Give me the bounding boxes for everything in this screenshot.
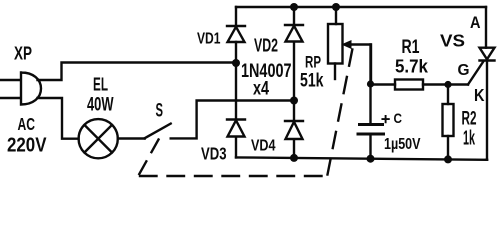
- diode VD4: [285, 121, 303, 139]
- resistor R1: [395, 80, 423, 90]
- node: R1 / R2 / gate: [444, 81, 451, 88]
- svg-text:EL: EL: [93, 75, 108, 95]
- capacitor C: [358, 45, 389, 159]
- node: top rail / VD2: [290, 3, 298, 11]
- svg-text:51k: 51k: [300, 70, 324, 92]
- wire: switch to bridge AC node: [171, 101, 294, 139]
- svg-text:x4: x4: [253, 79, 269, 100]
- bottom rail: [236, 157, 486, 159]
- svg-text:AC: AC: [18, 114, 36, 134]
- svg-text:R2: R2: [462, 108, 477, 130]
- top rail: [236, 6, 486, 8]
- dashed link: bottom run: [140, 175, 328, 177]
- node: switch wire / VD2-VD4 junction: [290, 97, 298, 105]
- svg-text:5.7k: 5.7k: [395, 57, 429, 77]
- svg-text:C: C: [394, 110, 403, 126]
- svg-text:VD4: VD4: [251, 138, 276, 155]
- svg-text:VD1: VD1: [197, 31, 221, 48]
- wire: gate diagonal to VS: [468, 62, 483, 85]
- wire: XP bottom to lamp: [38, 98, 79, 139]
- svg-text:XP: XP: [14, 44, 32, 64]
- node: RP wiper / R1 / C: [367, 80, 374, 87]
- diode VD3: [227, 120, 245, 137]
- svg-text:K: K: [474, 85, 485, 105]
- wire: right bridge column: [293, 7, 295, 158]
- svg-text:220V: 220V: [7, 135, 47, 157]
- diode VD1: [227, 26, 245, 42]
- node: XP top / VD1-VD3 junction: [232, 59, 240, 67]
- svg-text:VS: VS: [440, 31, 465, 51]
- svg-text:1k: 1k: [463, 128, 475, 150]
- plug XP: [1, 73, 41, 105]
- wire: node to R1 to gate node: [371, 83, 469, 85]
- svg-text:S: S: [156, 101, 164, 122]
- svg-text:A: A: [470, 13, 481, 32]
- wire: left bridge column: [235, 7, 237, 157]
- svg-text:1µ50V: 1µ50V: [384, 136, 421, 153]
- RP wiper arrow: [343, 41, 372, 84]
- dashed link: rise to RP wiper: [328, 50, 353, 175]
- switch S: [145, 124, 171, 139]
- resistor R2: [443, 85, 454, 160]
- lamp EL: [79, 119, 118, 158]
- svg-text:G: G: [458, 62, 470, 79]
- svg-text:40W: 40W: [87, 94, 114, 116]
- node: top rail / RP: [332, 3, 340, 11]
- svg-text:VD3: VD3: [201, 144, 227, 164]
- wire: lamp to switch: [118, 137, 145, 139]
- potentiometer RP: [328, 7, 343, 79]
- diode VD2: [285, 25, 303, 42]
- wire: XP top to bridge node: [38, 63, 237, 81]
- node: R2 / bottom rail: [444, 155, 452, 163]
- thyristor VS: [480, 7, 495, 160]
- node: VD4 / bottom rail: [290, 154, 298, 162]
- node: C / bottom rail: [367, 155, 375, 163]
- dashed link: switch to bottom: [139, 140, 159, 175]
- svg-text:VD2: VD2: [254, 35, 278, 56]
- svg-text:R1: R1: [402, 36, 420, 58]
